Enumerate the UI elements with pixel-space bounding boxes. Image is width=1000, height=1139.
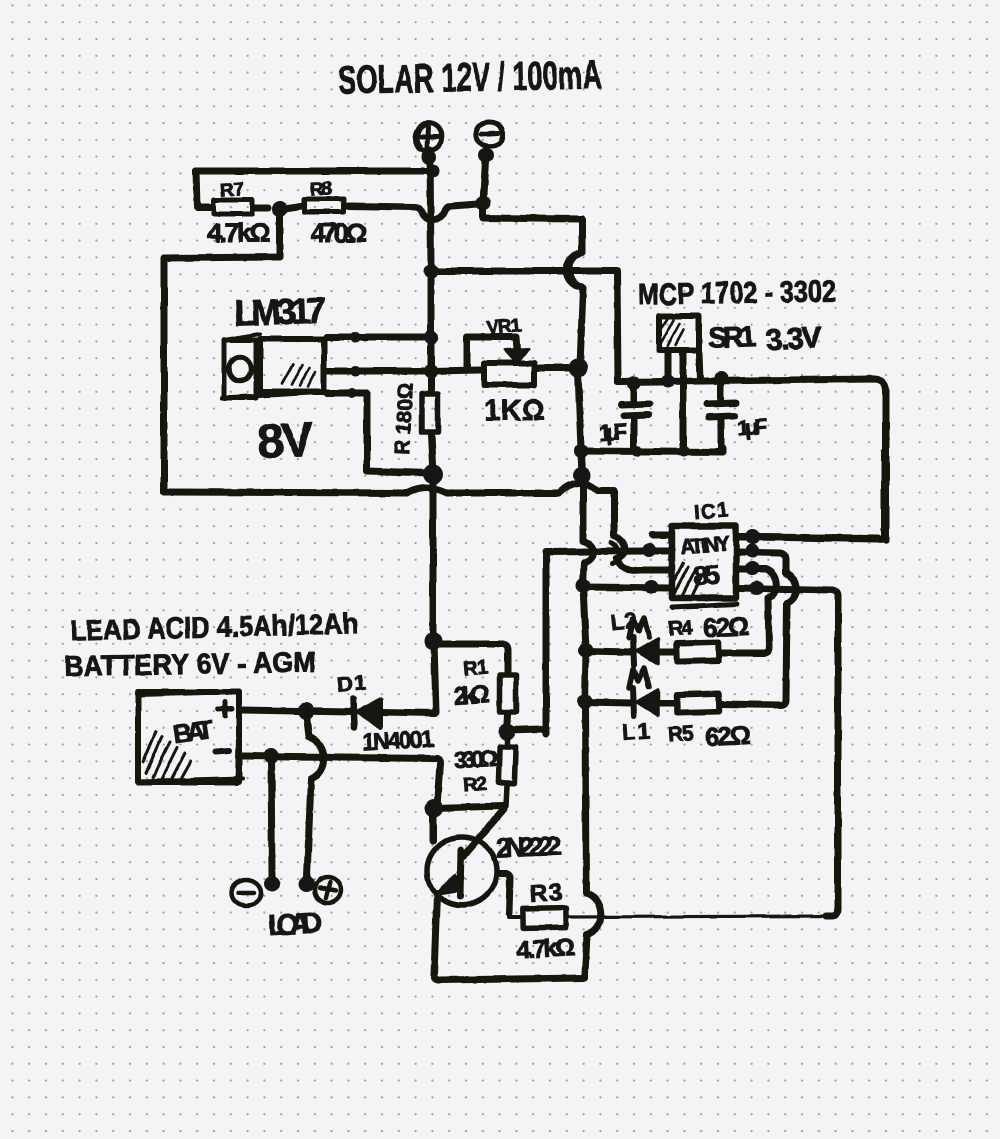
- wire pin F right and down with hop: [722, 552, 797, 705]
- wire battery minus rail: [242, 756, 440, 806]
- label R7: [219, 179, 244, 202]
- svg-text:R2: R2: [462, 773, 487, 797]
- svg-text:R7: R7: [219, 179, 244, 202]
- node junction R1 R2: [499, 724, 516, 741]
- wire load minus descender: [271, 756, 272, 877]
- diode D1: [353, 699, 435, 728]
- wire collector stub to circle: [430, 810, 437, 841]
- label LOAD: [267, 907, 323, 942]
- svg-text:D1: D1: [336, 669, 367, 697]
- resistor R2: [498, 732, 515, 806]
- label 3.3V: [765, 321, 823, 357]
- svg-text:R4: R4: [667, 616, 694, 641]
- label 1uF right: [736, 414, 768, 441]
- transistor Q1 collector diagonal: [463, 809, 504, 857]
- node junction V2 below cap rail: [574, 467, 591, 484]
- node junction V2 at cap rail: [574, 444, 588, 458]
- svg-text:62Ω: 62Ω: [704, 720, 752, 752]
- svg-text:L2: L2: [610, 607, 638, 635]
- svg-text:BATTERY 6V - AGM: BATTERY 6V - AGM: [64, 647, 317, 683]
- svg-text:62Ω: 62Ω: [702, 611, 750, 643]
- label BAT: [171, 714, 215, 749]
- node junction V1 battery rail: [424, 632, 442, 650]
- label BATTERY 6V - AGM: [64, 647, 317, 683]
- node junction cap C2 on rail: [715, 371, 729, 385]
- resistor R3: [509, 908, 566, 929]
- label SR1: [707, 321, 756, 355]
- svg-text:R8: R8: [309, 178, 332, 200]
- regulator U2 LM317 hatch: [282, 364, 315, 387]
- wire pin G right and down with hop: [722, 569, 777, 653]
- regulator SR1 hatch: [660, 318, 684, 346]
- label MCP 1702 - 3302: [638, 275, 837, 311]
- node junction R6 bottom: [423, 464, 443, 484]
- label LM317: [233, 289, 326, 333]
- battery BT1 box: [137, 691, 243, 784]
- node junction V2 at LED L2 rail: [579, 643, 594, 658]
- node junction V1 rail right: [424, 264, 439, 279]
- IC U1 hatch: [673, 563, 701, 599]
- label R5: [667, 722, 695, 747]
- label 1KΩ: [484, 395, 545, 427]
- svg-text:1μF: 1μF: [736, 414, 768, 441]
- svg-text:4.7kΩ: 4.7kΩ: [207, 218, 271, 248]
- potentiometer VR1 body: [484, 363, 534, 385]
- label 2kΩ: [453, 680, 491, 710]
- wire R1 top rail: [433, 644, 508, 672]
- wire loop from R7 R8 junction down left: [164, 209, 280, 492]
- wire LED L1 rail: [585, 702, 631, 703]
- label 2N2222: [496, 831, 563, 863]
- svg-text:470Ω: 470Ω: [311, 218, 367, 248]
- node junction pin F: [745, 544, 759, 558]
- node junction V2 at LED L1 rail: [578, 694, 593, 709]
- wire V1 to VR1: [431, 370, 481, 371]
- wire solar minus vertical: [483, 152, 486, 217]
- wire R1 to junction: [507, 715, 508, 731]
- potentiometer VR1 wiper loop: [467, 337, 517, 369]
- wire MCP rail y380: [618, 379, 886, 540]
- regulator SR1 legs: [668, 353, 700, 449]
- node junction pin H: [750, 581, 765, 596]
- svg-text:IC1: IC1: [693, 500, 728, 524]
- node junction battery minus: [263, 748, 279, 764]
- wire load plus descender with hop: [306, 711, 324, 877]
- wire rail to MCP drop: [431, 271, 618, 382]
- node junction minus drop: [476, 196, 491, 211]
- svg-text:85: 85: [692, 559, 721, 592]
- regulator U2 LM317 tab: [224, 340, 256, 398]
- label L2: [610, 607, 638, 635]
- label 470Ω: [311, 218, 367, 248]
- svg-text:1N4001: 1N4001: [361, 725, 434, 755]
- node junction bottom rail leg2: [679, 446, 690, 457]
- IC U1 ATtiny85 box: [672, 526, 737, 607]
- label L1: [621, 718, 651, 745]
- wire collector rail: [435, 806, 504, 808]
- load plus terminal: [315, 877, 341, 903]
- LED L1 emission arrows: [629, 668, 649, 688]
- battery hatch: [143, 731, 191, 778]
- svg-text:3.3V: 3.3V: [765, 321, 823, 357]
- wire LED L2 rail: [586, 651, 631, 652]
- load minus terminal: [231, 880, 261, 906]
- wire pin H rail right and down to R3: [739, 588, 838, 916]
- svg-text:330Ω: 330Ω: [453, 745, 498, 773]
- node junction V2 at VR1 wire: [569, 359, 588, 378]
- wire pin E rail to right loop: [739, 537, 878, 538]
- wire emitter vertical: [434, 893, 437, 975]
- node junction V2 at pin D rail: [576, 579, 591, 594]
- node blob on VIN pin: [350, 332, 361, 343]
- svg-text:BAT: BAT: [171, 714, 215, 749]
- node blob on ADJ pin: [347, 388, 357, 398]
- node terminal load minus wire: [264, 876, 280, 892]
- svg-text:ATINY: ATINY: [679, 532, 730, 558]
- wire VR1 to V2: [537, 365, 578, 372]
- node junction pin B: [642, 543, 656, 557]
- svg-text:8 V: 8 V: [256, 413, 315, 469]
- svg-text:R 180Ω: R 180Ω: [391, 382, 418, 455]
- title SOLAR 12V / 100mA: [338, 53, 603, 103]
- capacitor C2 1uF: [707, 378, 736, 450]
- label R1: [462, 656, 489, 680]
- node junction pin G: [745, 561, 759, 575]
- svg-text:R3: R3: [529, 879, 563, 908]
- node junction battery plus: [298, 703, 315, 720]
- battery minus sign: [216, 751, 229, 752]
- wire rail D V2 to pin D: [583, 587, 669, 588]
- wire LM317 pin VIN: [327, 334, 431, 341]
- label R2: [462, 773, 487, 797]
- wire right loop lower corner to pin E rail: [739, 537, 886, 539]
- solar plus terminal: [415, 123, 442, 165]
- LED L2 emission arrows: [629, 618, 649, 638]
- node junction VOUT on V1: [424, 364, 438, 378]
- wire NC stub pin A: [652, 532, 669, 539]
- label 4.7kΩ: [207, 218, 271, 248]
- label R8: [309, 178, 332, 200]
- node junction VIN on V1: [424, 330, 438, 344]
- resistor R4: [677, 642, 719, 661]
- label 1N4001: [361, 725, 434, 755]
- transistor Q1 circle: [427, 837, 497, 905]
- LED L1: [633, 688, 674, 716]
- label 4.7kΩ lower: [516, 933, 575, 964]
- transistor Q1 base bar: [460, 850, 461, 896]
- label 8 V: [256, 413, 315, 469]
- svg-text:LM317: LM317: [233, 289, 326, 333]
- node blob on VOUT pin: [350, 366, 361, 377]
- label VR1: [485, 315, 522, 340]
- label IC1: [693, 500, 728, 524]
- wire battery plus to diode: [242, 710, 352, 712]
- LED L2: [633, 637, 674, 665]
- node junction at top rail and plus wire: [426, 164, 440, 178]
- wire LM317 pin ADJ down and right: [327, 393, 431, 473]
- wire double stroke right vertical: [881, 452, 885, 537]
- wire base to R3: [499, 873, 510, 913]
- svg-text:R1: R1: [462, 656, 489, 680]
- svg-text:1KΩ: 1KΩ: [484, 395, 545, 427]
- resistor R7: [214, 200, 268, 214]
- resistor R1: [500, 675, 516, 712]
- node junction MCP left leg on rail: [662, 375, 675, 388]
- node junction bottom rail leg1: [632, 446, 643, 457]
- label R6 180Ω vertical: [391, 382, 418, 455]
- wire left drop into R7: [196, 171, 211, 207]
- label 1uF left: [598, 419, 628, 446]
- node junction collector rail: [425, 799, 443, 817]
- capacitor C1 1uF: [621, 383, 650, 450]
- wire solar plus vertical V1: [430, 150, 436, 712]
- svg-text:2kΩ: 2kΩ: [453, 680, 491, 710]
- wire LM317 pin VOUT: [327, 368, 431, 375]
- wire junction to R8: [288, 206, 301, 208]
- potentiometer VR1 arrow: [505, 349, 528, 363]
- wire bottom rail A with hops: [164, 483, 669, 570]
- svg-text:2N2222: 2N2222: [496, 831, 563, 863]
- wire caps bottom rail: [581, 448, 723, 452]
- transistor Q1 emitter arrow: [436, 875, 460, 894]
- wire rail to V2 top: [483, 218, 582, 219]
- svg-text:1μF: 1μF: [598, 419, 628, 446]
- wire double arc at pin C descent: [611, 543, 619, 564]
- svg-text:4.7kΩ: 4.7kΩ: [516, 933, 575, 964]
- battery plus sign: [218, 702, 232, 716]
- wire R8 to minus drop with hop under plus wire: [347, 204, 478, 220]
- svg-text:SR1: SR1: [707, 321, 756, 355]
- regulator U2 LM317 body: [222, 334, 330, 398]
- wire rail B from R1R2 junction up to pin B: [507, 551, 669, 734]
- resistor R8: [304, 199, 344, 212]
- label ATINY: [679, 532, 730, 558]
- svg-text:R5: R5: [667, 722, 695, 747]
- label 62Ω lower: [704, 720, 752, 752]
- label 62Ω upper: [702, 611, 750, 643]
- node junction between R7 and R8: [272, 201, 288, 217]
- node junction pin E: [746, 530, 761, 545]
- svg-text:VR1: VR1: [485, 315, 522, 340]
- svg-text:LOAD: LOAD: [267, 907, 323, 942]
- node terminal load plus wire: [299, 876, 315, 892]
- svg-text:SOLAR 12V / 100mA: SOLAR 12V / 100mA: [338, 53, 603, 103]
- resistor R5: [677, 693, 719, 712]
- wire bottom rail: [434, 975, 585, 980]
- wire R3 thin lead right: [566, 916, 836, 917]
- wire V2 upper with hop arcs: [566, 219, 601, 977]
- solar minus terminal: [476, 122, 503, 163]
- label 330Ω: [453, 745, 498, 773]
- label 85: [692, 559, 721, 592]
- regulator SR1 MCP1702 body: [659, 316, 699, 350]
- label LEAD ACID 4.5Ah/12Ah: [70, 608, 359, 648]
- wire top rail from R7 loop to solar plus: [196, 168, 433, 175]
- node junction pin D: [644, 580, 658, 594]
- resistor R6 180 ohm: [422, 394, 438, 432]
- label R3: [529, 879, 563, 908]
- transistor Q1 emitter diagonal: [444, 878, 461, 888]
- node junction cap C1 on rail: [627, 376, 641, 390]
- label D1: [336, 669, 367, 697]
- label R4: [667, 616, 694, 641]
- svg-text:MCP 1702 - 3302: MCP 1702 - 3302: [638, 275, 837, 311]
